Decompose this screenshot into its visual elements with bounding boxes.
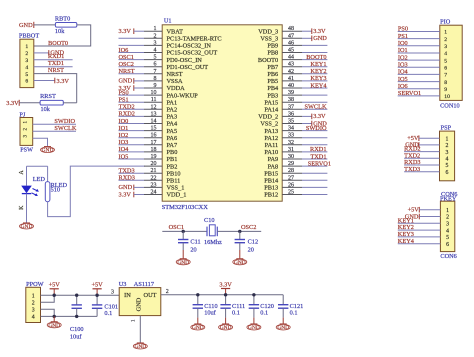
svg-text:STM32F103CXX: STM32F103CXX [162,204,209,211]
U1 pin 10 PA0-WKUP wire/net PS0 [119,89,199,99]
wire RLED to U1 PB2 [48,166,145,217]
svg-text:0.1: 0.1 [260,310,268,317]
svg-text:KEY4: KEY4 [310,82,327,89]
svg-text:GND: GND [277,325,289,331]
svg-text:VSS_2: VSS_2 [260,121,278,128]
svg-text:PB9: PB9 [267,43,278,50]
svg-text:RBT0: RBT0 [55,16,70,23]
svg-text:GND: GND [19,22,33,29]
U1 pin 48 VDD_3 wire/net 3.3V [258,26,326,35]
svg-text:PB2: PB2 [167,163,178,170]
svg-text:KEY1: KEY1 [310,61,326,68]
svg-text:3.3V: 3.3V [313,113,326,120]
svg-text:7: 7 [154,69,157,75]
svg-text:10k: 10k [41,106,51,113]
svg-text:GND: GND [313,35,327,42]
svg-text:1: 1 [445,136,448,142]
PKEY pin numbers 1-6 [446,208,449,248]
U1 pin 29 PA8 wire/net SERVO1 [268,160,331,170]
svg-text:18: 18 [151,147,157,153]
net label RXD3 + wire (PSP pin 5) [404,159,439,166]
resistor RLED [45,166,67,202]
power symbol +5V (C101) [91,282,103,289]
svg-text:3: 3 [32,308,35,314]
svg-text:30: 30 [288,154,294,160]
svg-text:A: A [19,170,25,175]
ground symbol GND (C110) [197,318,199,324]
wire PPOW pin 3 to GND rail [41,309,55,316]
svg-text:CON10: CON10 [440,103,460,110]
svg-text:VSS_3: VSS_3 [260,36,278,43]
svg-text:11: 11 [151,97,157,103]
svg-text:C12: C12 [248,239,259,246]
U1 pin 32 PA11 wire [265,140,328,149]
U1 pin 19 PB1 wire/net IO5 [119,153,178,163]
PSP pin numbers 1-6 [445,136,448,176]
svg-text:3.3V: 3.3V [219,281,232,288]
capacitor C12 20 [235,231,245,250]
svg-text:OSC1: OSC1 [169,224,184,231]
svg-text:33: 33 [288,133,294,139]
connector PIO CON10 [440,18,462,109]
capacitor C11 20 [178,231,188,250]
svg-text:GND: GND [21,224,33,230]
PJ pin numbers 1-3 [23,121,28,138]
U1 pin 43 PB7 wire/net KEY1 [267,61,327,71]
svg-text:PA5: PA5 [167,128,178,135]
svg-text:PIO: PIO [440,18,451,25]
svg-text:3.3V: 3.3V [6,100,19,107]
svg-text:3: 3 [111,290,114,296]
svg-text:K: K [19,205,25,210]
svg-text:PA4: PA4 [167,121,178,128]
svg-text:PD1-OSC_OUT: PD1-OSC_OUT [167,64,209,71]
U1 pin 45 PB8 wire [267,48,327,57]
U1 pin 27 PB14 wire [264,175,327,184]
svg-text:BOOT0: BOOT0 [306,54,326,61]
svg-text:29: 29 [288,161,294,167]
svg-text:VDD_1: VDD_1 [167,192,187,199]
svg-text:PB8: PB8 [267,50,278,57]
svg-text:45: 45 [288,48,294,54]
svg-text:1: 1 [444,30,447,36]
power symbol GND + wire (PKEY pin 2) [405,213,441,220]
U1 pin 39 PB3 wire [267,90,327,99]
ground symbol GND (LED) [20,223,34,230]
svg-text:19: 19 [151,154,157,160]
ground symbol GND (C12) [233,259,247,266]
U1 pin 7 NRST wire/net NRST [119,68,183,78]
svg-text:16: 16 [151,133,157,139]
crystal C10 16Mhz [204,217,222,246]
net label IO0 + wire (PIO pin 3) [398,40,440,47]
power symbol GND (RBT0 left) [19,22,34,29]
junction node C101 [95,294,98,297]
svg-text:PC14-OSC32_IN: PC14-OSC32_IN [167,43,212,50]
svg-text:PA11: PA11 [265,142,279,149]
LED D1 with A/K markings [19,166,46,222]
net label PS1 + wire (PIO pin 2) [398,33,440,40]
resistor RRST [40,93,63,113]
net label IO1 + wire (PIO pin 4) [398,47,440,54]
svg-text:6: 6 [154,62,157,68]
svg-text:25: 25 [288,190,294,196]
svg-text:3: 3 [444,44,447,50]
ground symbol GND (C120) [253,318,255,324]
PBBOT pin numbers 1-6 [25,44,28,84]
U1 pin 25 PB12 wire [264,190,327,199]
svg-text:3.3V: 3.3V [119,28,132,35]
svg-text:6: 6 [446,242,449,248]
svg-text:PB7: PB7 [267,64,278,71]
U1 pin 17 PA7 wire/net IO3 [119,139,178,149]
svg-text:43: 43 [288,62,294,68]
net label KEY1 + wire (PKEY pin 3) [398,217,441,224]
svg-text:4: 4 [154,48,157,54]
svg-text:PB5: PB5 [267,78,278,85]
svg-text:U1: U1 [164,18,172,25]
PIO pin numbers 1-10 [444,30,450,100]
U1 pin 24 VDD_1 wire/net 3.3V [119,190,187,199]
capacitor C121 0.1 [278,295,288,318]
svg-text:PC13-TAMPER-RTC: PC13-TAMPER-RTC [167,36,222,43]
svg-text:2: 2 [32,300,35,306]
svg-text:40: 40 [288,83,294,89]
junction node C110 [196,293,199,296]
junction node GND/pin3 [53,315,56,318]
junction node C111 [224,293,227,296]
svg-text:PD0-OSC_IN: PD0-OSC_IN [167,57,203,64]
svg-text:37: 37 [288,104,294,110]
connector PKEY CON6 [440,196,457,261]
svg-text:24: 24 [151,190,157,196]
svg-text:4: 4 [445,157,448,163]
svg-text:PA7: PA7 [167,142,178,149]
net label NRST + wire (PBBOT pin 5) [34,67,77,103]
power symbol +5V (PPOW) [49,282,61,289]
svg-text:PA6: PA6 [167,135,178,142]
junction node (OSC1/C11) [182,230,185,233]
wire PJ pin 3 to GND [33,138,48,146]
svg-text:0.1: 0.1 [104,310,112,317]
svg-text:6: 6 [445,170,448,176]
regulator U3 AS1117 [119,281,161,316]
net label IO2 + wire (PIO pin 5) [398,54,440,61]
svg-text:PB13: PB13 [264,185,278,192]
svg-text:6: 6 [25,79,28,85]
svg-text:6: 6 [444,66,447,72]
svg-text:PC15-OSC32_OUT: PC15-OSC32_OUT [167,50,218,57]
svg-text:BOOT0: BOOT0 [48,40,68,47]
U1 pin 21 PB10 wire/net TXD3 [119,168,181,178]
svg-text:PA15: PA15 [264,99,278,106]
svg-text:4: 4 [446,228,449,234]
net label KEY2 + wire (PKEY pin 4) [398,224,441,231]
svg-text:42: 42 [288,69,294,75]
svg-text:KEY3: KEY3 [310,75,326,82]
svg-text:C11: C11 [190,239,200,246]
svg-text:36: 36 [288,111,294,117]
svg-text:20: 20 [248,247,254,254]
ground symbol GND (U3) [133,343,147,350]
svg-text:PB10: PB10 [167,170,181,177]
wire PBBOT pin 6 + power symbol 3.3V [34,78,70,85]
U1 pin 30 PA9 wire/net TXD1 [268,153,328,163]
svg-text:5: 5 [446,235,449,241]
svg-text:4: 4 [32,315,35,321]
svg-text:PA8: PA8 [268,163,279,170]
svg-text:1: 1 [32,293,35,299]
svg-text:0.1: 0.1 [232,310,240,317]
capacitor C101 0.1 [92,295,102,316]
svg-text:PB3: PB3 [267,92,278,99]
IC U1 STM32F103CXX body [162,25,282,201]
net label SWCLK + wire (PJ pin 2) [33,125,77,132]
power symbol GND + wire (PSP pin 2) [405,142,439,149]
ground symbol GND (PPOW) [53,316,55,321]
svg-text:GND: GND [119,184,133,191]
svg-text:2: 2 [445,143,448,149]
connector PSP CON6 [440,125,458,199]
U1 pin 37 PA14 wire/net SWCLK [264,104,327,114]
svg-text:OSC2: OSC2 [241,224,256,231]
U1 pin 8 VSSA wire/net GND [119,76,184,85]
svg-text:9: 9 [154,83,157,89]
junction node C120 [252,293,255,296]
svg-text:PSW: PSW [20,147,33,154]
svg-text:7: 7 [444,73,447,79]
svg-text:PA10: PA10 [264,149,278,156]
svg-text:VDD_2: VDD_2 [258,114,278,121]
svg-text:C100: C100 [70,326,84,333]
capacitor C110 10uf [193,295,203,318]
svg-text:PB1: PB1 [167,156,178,163]
resistor RBT0 [55,16,77,35]
U1 pin 41 PB5 wire/net KEY3 [267,75,327,85]
svg-text:RRST: RRST [40,93,56,100]
svg-text:35: 35 [288,119,294,125]
svg-text:3.3V: 3.3V [119,191,132,198]
svg-text:10: 10 [151,90,157,96]
svg-text:CON6: CON6 [440,253,456,260]
power symbol +5V + wire (PSP pin 1) [407,135,439,142]
svg-text:PA12: PA12 [264,135,278,142]
svg-text:SWDIO: SWDIO [306,125,327,132]
svg-text:16Mhz: 16Mhz [204,239,222,246]
U1 pin 31 PA10 wire/net RXD1 [264,146,327,156]
wire RBT0 to BOOT0 net [34,25,91,46]
svg-text:1: 1 [154,26,157,32]
U1 pin 28 PB15 wire [264,168,327,177]
svg-text:3: 3 [25,58,28,64]
U1 pin 35 VSS_2 wire/net GND [260,119,327,128]
svg-text:5: 5 [444,58,447,64]
svg-text:1: 1 [446,208,449,214]
ground symbol GND (C11) [176,259,190,266]
svg-text:38: 38 [288,97,294,103]
junction node (OSC2/C12) [238,230,241,233]
U1 pin 9 VDDA wire/net 3.3V [119,83,186,92]
svg-text:GND: GND [248,325,260,331]
wire +5V rail (PPOW pin 1 to U3 IN) [41,294,120,296]
net label TXD2 + wire (PSP pin 4) [404,152,439,159]
svg-text:26: 26 [288,182,294,188]
svg-text:12: 12 [151,104,157,110]
U1 pin 36 VDD_2 wire/net 3.3V [258,111,326,120]
U1 pin 4 PC15-OSC32_OUT wire/net IO6 [119,47,218,57]
svg-text:PB11: PB11 [167,178,181,185]
svg-text:3: 3 [445,150,448,156]
net label TXD3 + wire (PSP pin 6) [404,166,439,173]
svg-text:10k: 10k [55,28,65,35]
svg-text:2: 2 [154,33,157,39]
svg-text:20: 20 [190,247,196,254]
wire GND rail (PPOW pin 4 to C101) [41,315,98,317]
svg-text:22: 22 [151,175,157,181]
U1 pin 1 VBAT wire/net 3.3V [119,26,184,35]
svg-text:0.1: 0.1 [290,310,298,317]
svg-text:GND: GND [220,325,232,331]
svg-text:NRST: NRST [48,67,64,74]
svg-text:4: 4 [444,51,447,57]
net label KEY4 + wire (PKEY pin 6) [398,238,441,245]
U1 pin 15 PA5 wire/net IO1 [119,125,178,135]
svg-text:TXD1: TXD1 [310,153,326,160]
svg-text:KEY2: KEY2 [310,68,326,75]
U1 pin 6 PD1-OSC_OUT wire/net OSC2 [119,61,209,71]
connector PPOW [26,281,44,322]
U1 pin 23 VSS_1 wire/net GND [119,182,185,191]
U1 pin 13 PA3 wire/net RXD2 [119,111,178,121]
svg-text:C10: C10 [204,217,215,224]
svg-text:PA13: PA13 [264,128,278,135]
capacitor C100 10uf [72,295,82,316]
ground symbol GND (PJ) [41,147,55,154]
U1 pin 2 PC13-TAMPER-RTC wire [119,33,222,42]
U1 pin 22 PB11 wire/net RXD3 [119,175,181,185]
wire PPOW pin 2 to +5V rail [41,295,55,302]
svg-text:47: 47 [288,33,294,39]
svg-text:NRST: NRST [167,71,183,78]
net label TXD1 + wire (PBBOT pin 4) [34,60,73,67]
svg-text:39: 39 [288,90,294,96]
svg-text:VSSA: VSSA [167,78,184,85]
svg-text:+5V: +5V [49,282,61,289]
svg-text:GND: GND [134,344,146,350]
svg-text:PBBOT: PBBOT [19,33,39,40]
U1 pin 34 PA13 wire/net SWDIO [264,125,327,135]
svg-text:3: 3 [154,40,157,46]
svg-text:BOOT0: BOOT0 [258,57,278,64]
svg-text:15: 15 [151,126,157,132]
wire RRST to NRST net [63,102,76,104]
svg-text:VSS_1: VSS_1 [167,185,185,192]
svg-text:2: 2 [25,51,28,57]
svg-text:LED: LED [33,176,46,183]
net label IO5 + wire (PIO pin 8) [398,76,440,83]
power symbol 3.3V (RRST left) [6,100,19,107]
net label RXD1 + wire (PBBOT pin 3) [34,53,73,60]
svg-text:PA2: PA2 [167,107,178,114]
svg-text:8: 8 [154,76,157,82]
svg-text:PB0: PB0 [167,149,178,156]
U1 pin 47 VSS_3 wire/net GND [260,33,327,42]
net label OSC2 + wire [217,224,261,231]
net label SWDIO + wire (PJ pin 1) [33,118,76,125]
svg-text:VDDA: VDDA [167,85,186,92]
svg-text:10: 10 [444,94,450,100]
svg-text:PB12: PB12 [264,192,278,199]
U1 pin 40 PB4 wire/net KEY4 [267,82,327,92]
U1 pin 3 PC14-OSC32_IN wire [119,40,212,49]
svg-text:IN: IN [124,292,131,299]
svg-text:PB4: PB4 [267,85,279,92]
svg-text:10uf: 10uf [70,334,82,341]
U1 pin 14 PA4 wire/net IO0 [119,118,178,128]
svg-text:46: 46 [288,40,294,46]
svg-text:14: 14 [151,119,157,125]
svg-text:PA9: PA9 [268,156,279,163]
U1 pin 33 PA12 wire [264,133,327,142]
svg-text:10uf: 10uf [204,310,216,317]
svg-text:+5V: +5V [91,282,103,289]
svg-text:28: 28 [288,168,294,174]
U1 pin 26 PB13 wire [264,182,327,191]
svg-text:1: 1 [132,319,137,322]
svg-text:SERVO1: SERVO1 [308,160,331,167]
wire PBBOT pin 2 stub [34,52,49,54]
svg-text:PA0-WKUP: PA0-WKUP [167,92,199,99]
svg-text:PB14: PB14 [264,178,279,185]
svg-text:3.3V: 3.3V [57,78,70,85]
svg-text:RXD1: RXD1 [310,146,326,153]
ground symbol GND (C121) [282,318,284,324]
svg-text:9: 9 [444,87,447,93]
wire GND to RBT0 [34,24,56,26]
wire LED anode to RLED [27,165,48,167]
U1 pin 20 PB2 wire [144,161,177,170]
svg-text:PA3: PA3 [167,114,178,121]
U1 pin 38 PA15 wire [264,97,327,106]
capacitor C120 0.1 [249,295,259,318]
net label SERVO1 + wire (PIO pin 10) [398,90,440,97]
svg-text:34: 34 [288,126,294,132]
connector PJ [19,112,32,146]
PPOW pin numbers 1-4 [32,293,35,320]
svg-text:PA1: PA1 [167,99,178,106]
net label PS0 + wire (PIO pin 1) [398,26,440,33]
wire 3.3V to RRST [19,102,40,104]
svg-text:VBAT: VBAT [167,28,184,35]
svg-text:PB15: PB15 [264,170,278,177]
U1 pin 12 PA2 wire/net TXD2 [119,104,178,114]
svg-text:GND: GND [234,260,246,266]
U1 pin 18 PB0 wire/net IO4 [119,146,178,156]
svg-text:2: 2 [444,37,447,43]
net label KEY3 + wire (PKEY pin 5) [398,231,441,238]
svg-text:1: 1 [25,44,28,50]
svg-text:17: 17 [151,140,157,146]
svg-text:32: 32 [288,140,294,146]
svg-text:48: 48 [288,26,294,32]
U1 pin 44 BOOT0 wire/net BOOT0 [258,54,327,64]
svg-text:GND: GND [48,323,60,329]
svg-text:13: 13 [151,111,157,117]
svg-text:GND: GND [119,78,133,85]
svg-text:41: 41 [288,76,294,82]
net label IO6 + wire (PIO pin 9) [398,83,440,90]
U1 pin 42 PB6 wire/net KEY2 [267,68,327,78]
